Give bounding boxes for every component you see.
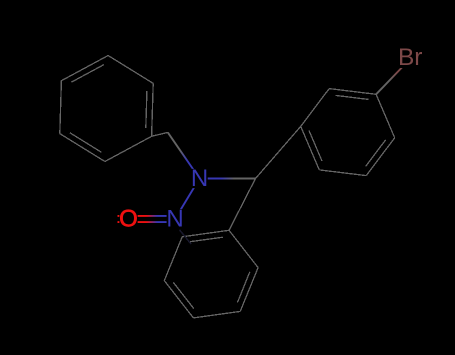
svg-text:Br: Br (398, 44, 423, 71)
svg-text:N: N (166, 206, 183, 233)
svg-text:N: N (191, 165, 208, 192)
svg-text:O: O (119, 206, 138, 233)
